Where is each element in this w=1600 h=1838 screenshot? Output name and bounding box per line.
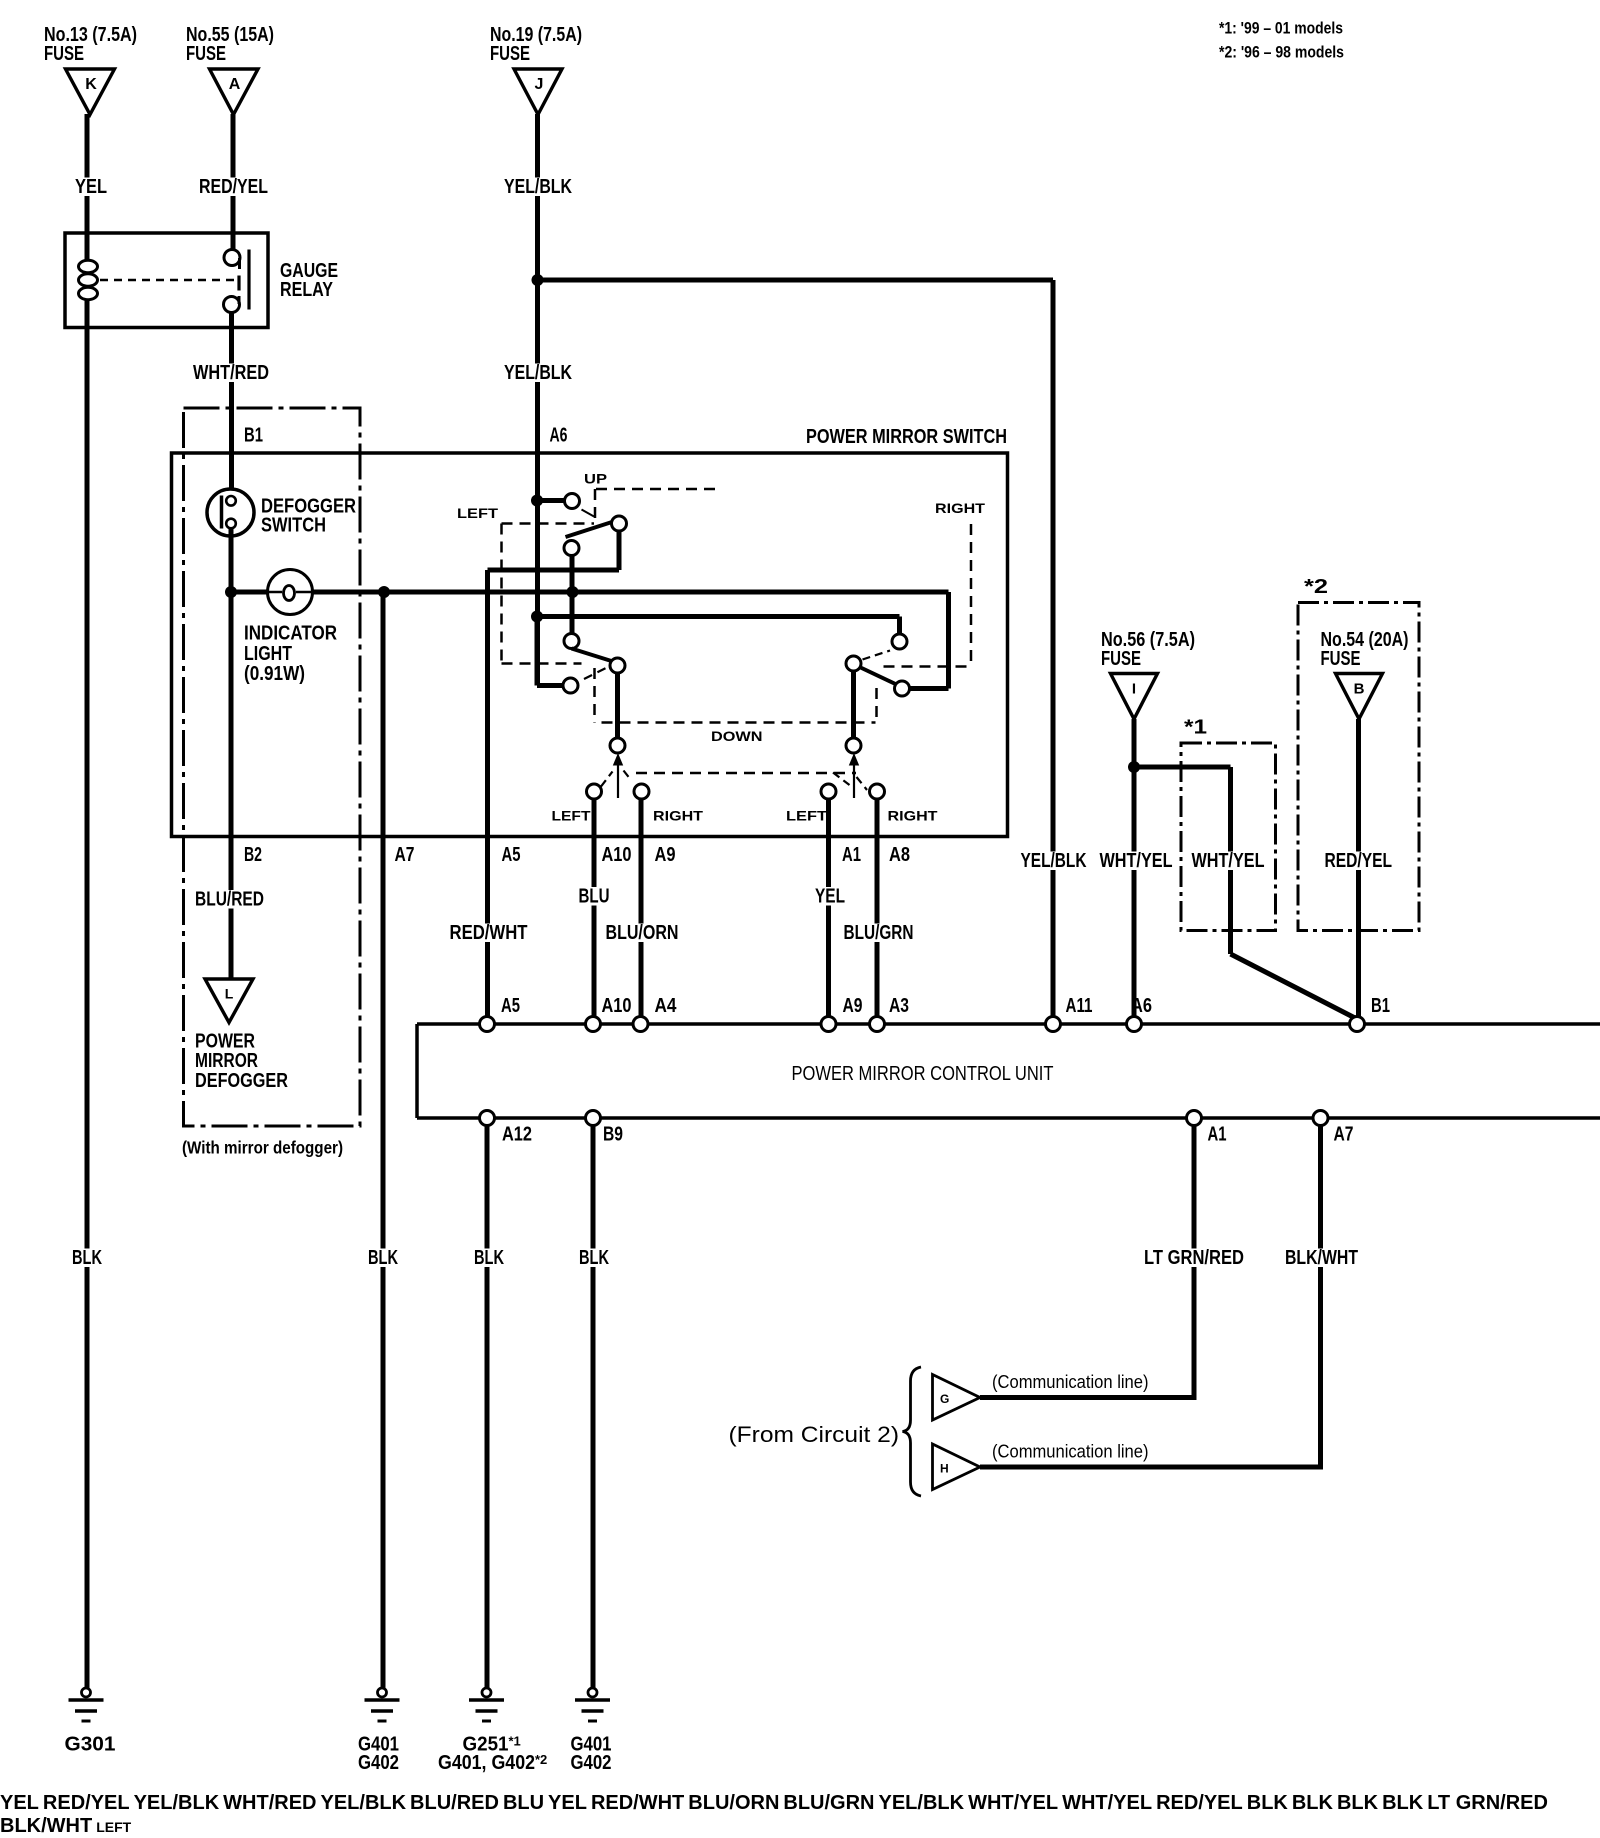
svg-text:G402: G402 — [358, 1752, 399, 1774]
label RED/YEL right — [1323, 850, 1395, 872]
svg-text:WHT/YEL: WHT/YEL — [1100, 850, 1173, 872]
svg-text:G: G — [940, 1392, 949, 1406]
wiper arm up-left switch — [566, 522, 614, 538]
wire A6 dot to contact — [537, 498, 564, 503]
label BLK/WHT — [1283, 1247, 1360, 1269]
wire A7 comm (BLK/WHT) — [1318, 1126, 1323, 1467]
relay contact pin bottom — [224, 296, 240, 313]
svg-text:A6: A6 — [550, 425, 568, 447]
svg-text:RIGHT: RIGHT — [888, 808, 939, 824]
svg-text:SWITCH: SWITCH — [261, 515, 326, 537]
svg-text:B1: B1 — [244, 425, 263, 447]
relay dashed actuation line — [100, 279, 236, 282]
connector triangle H — [933, 1444, 981, 1490]
label WHT/YEL — [968, 1796, 1058, 1813]
svg-text:YEL/BLK: YEL/BLK — [504, 362, 572, 384]
node dot WHT/YEL branch — [1128, 761, 1140, 773]
label YEL A1 wire — [548, 1796, 587, 1813]
label RED/YEL right — [1156, 1796, 1243, 1813]
label RED/YEL — [197, 176, 270, 198]
label YEL/BLK top — [134, 1796, 220, 1813]
fuse J — [514, 69, 562, 115]
svg-text:J: J — [535, 76, 544, 93]
wire A1 comm (LT GRN/RED) — [1192, 1126, 1197, 1398]
svg-text:RED/WHT: RED/WHT — [450, 922, 528, 944]
fuse I — [1111, 674, 1158, 720]
svg-text:*1: *1 — [1184, 717, 1207, 739]
wire comm line H — [980, 1465, 1323, 1470]
label YEL/BLK mid — [320, 1796, 406, 1813]
label BLU/ORN — [688, 1796, 779, 1813]
svg-text:DOWN: DOWN — [711, 728, 763, 744]
dashed guide stubs right arrow — [833, 773, 867, 791]
wire defogger switch to node B2 — [229, 528, 234, 978]
svg-text:*1: '99 – 01 models: *1: '99 – 01 models — [1219, 19, 1343, 38]
svg-text:LT GRN/RED: LT GRN/RED — [1144, 1247, 1244, 1269]
relay coil — [79, 260, 98, 299]
fuse A — [210, 69, 259, 115]
wire A10 down — [592, 799, 597, 1016]
svg-text:A10: A10 — [602, 995, 632, 1017]
wire YEL/BLK right vertical to A11 — [1051, 280, 1056, 1016]
defogger option dash-dot box — [184, 408, 361, 1126]
svg-text:BLK/WHT: BLK/WHT — [1285, 1247, 1358, 1269]
label WHT/RED — [223, 1796, 316, 1813]
connector circle A10 — [586, 1017, 601, 1032]
fuse B — [1336, 674, 1383, 720]
wiper arm down-left switch — [572, 649, 614, 662]
label BLK 4 — [1382, 1796, 1423, 1813]
svg-text:K: K — [85, 76, 97, 93]
wire A6 to contact F — [537, 617, 563, 686]
svg-text:A3: A3 — [889, 995, 909, 1017]
wiper circle left motor — [610, 738, 625, 753]
node dot A6 lower junction — [531, 611, 543, 623]
wire comm line G — [980, 1395, 1197, 1400]
arrow to left wiper — [613, 753, 623, 798]
label BLU/GRN — [783, 1796, 874, 1813]
defogger switch S1 — [207, 489, 254, 536]
svg-text:A6: A6 — [1131, 995, 1152, 1017]
svg-text:G402: G402 — [571, 1752, 612, 1774]
svg-text:FUSE: FUSE — [490, 43, 530, 65]
label DEFOGGER SWITCH — [261, 496, 356, 537]
svg-text:INDICATOR: INDICATOR — [244, 623, 337, 645]
svg-text:UP: UP — [584, 471, 607, 487]
relay U1 GAUGE RELAY box — [65, 233, 268, 328]
wire A7 down to ground (BLK) — [381, 592, 386, 1688]
contact circle left LEFT — [587, 784, 602, 799]
label BLK 1 — [70, 1247, 104, 1269]
svg-text:YEL/BLK: YEL/BLK — [1021, 850, 1087, 872]
svg-text:BLU/GRN: BLU/GRN — [844, 922, 914, 944]
wire E down to wiper left — [615, 673, 620, 738]
connector triangle G — [933, 1375, 981, 1421]
svg-text:(With mirror defogger): (With mirror defogger) — [182, 1138, 343, 1158]
fuse J label — [490, 24, 582, 65]
fuse I label — [1101, 629, 1195, 670]
svg-text:RELAY: RELAY — [280, 279, 334, 301]
pin labels below switch — [244, 844, 910, 866]
wire contact B down — [617, 531, 622, 570]
svg-text:(Communication line): (Communication line) — [992, 1442, 1149, 1462]
svg-text:YEL: YEL — [75, 176, 107, 198]
control unit box POWER MIRROR CONTROL UNIT — [417, 1024, 1600, 1118]
dashed pivot stub right switch — [863, 651, 891, 660]
ground G401b — [571, 1688, 612, 1774]
fuse B label — [1321, 629, 1409, 670]
connector circle A12 — [480, 1111, 495, 1126]
label BLK 2 — [366, 1247, 400, 1269]
label YEL/BLK mid — [502, 362, 574, 384]
contact circle B up-left — [612, 516, 627, 531]
option box *1 — [1181, 717, 1276, 931]
indicator light L1 — [268, 570, 313, 615]
contact circle D — [564, 634, 579, 649]
label BLU — [503, 1796, 544, 1813]
label BLK 1 — [1247, 1796, 1288, 1813]
fuse K — [66, 69, 115, 115]
svg-text:FUSE: FUSE — [1321, 648, 1361, 670]
label BLU/GRN — [842, 922, 916, 944]
contact circle left-up feed — [565, 494, 580, 509]
contact circle right LEFT — [821, 784, 836, 799]
wire A fuse to relay contact — [231, 114, 236, 250]
svg-text:BLU/ORN: BLU/ORN — [606, 922, 679, 944]
contact circle F — [563, 678, 578, 693]
svg-text:A1: A1 — [842, 844, 861, 866]
label BLU/RED — [193, 889, 266, 911]
svg-text:(0.91W): (0.91W) — [244, 663, 305, 685]
connector circle A5 — [480, 1017, 495, 1032]
wire A9toA4 down — [639, 799, 644, 1016]
bus1 indicator light wire y592 — [231, 592, 949, 689]
svg-text:YEL: YEL — [815, 886, 845, 908]
label BLU/RED — [410, 1796, 499, 1813]
pivot circle right switch — [846, 656, 861, 671]
label RED/WHT — [448, 922, 530, 944]
wire pivot down to wiper right — [851, 671, 856, 738]
svg-text:A12: A12 — [502, 1124, 532, 1146]
svg-text:BLK: BLK — [368, 1247, 398, 1269]
svg-text:A4: A4 — [655, 995, 678, 1017]
svg-text:B1: B1 — [1371, 995, 1390, 1017]
ground G251 — [438, 1688, 547, 1774]
dashed guide at E — [584, 667, 608, 679]
svg-text:A8: A8 — [889, 844, 910, 866]
unit pin labels bottom — [502, 1124, 1354, 1146]
connector circle B9 — [586, 1111, 601, 1126]
svg-text:FUSE: FUSE — [1101, 648, 1141, 670]
svg-text:A: A — [229, 76, 241, 93]
svg-text:BLK: BLK — [579, 1247, 609, 1269]
connector circle A3 — [870, 1017, 885, 1032]
svg-text:*2: *2 — [1304, 576, 1328, 598]
connector circle A9 — [821, 1017, 836, 1032]
label POWER MIRROR DEFOGGER — [195, 1031, 288, 1093]
wire A5 down to unit — [485, 570, 490, 1016]
svg-text:RED/YEL: RED/YEL — [199, 176, 268, 198]
dashed RIGHT guide — [884, 524, 972, 667]
svg-text:MIRROR: MIRROR — [195, 1050, 258, 1072]
svg-text:L: L — [225, 986, 234, 1002]
dashed guide vertical x594 — [593, 668, 596, 723]
svg-text:BLU/RED: BLU/RED — [195, 889, 264, 911]
svg-text:A5: A5 — [502, 844, 521, 866]
svg-text:LIGHT: LIGHT — [244, 643, 292, 665]
label YEL/BLK top — [502, 176, 574, 198]
svg-text:H: H — [940, 1462, 949, 1476]
svg-text:DEFOGGER: DEFOGGER — [195, 1070, 288, 1092]
label YEL/BLK right — [879, 1796, 965, 1813]
wire A relay bottom to defogger switch (WHT/RED) — [229, 312, 234, 496]
contact circle right-top — [892, 634, 907, 649]
svg-text:B: B — [1354, 681, 1365, 698]
power mirror switch box — [172, 453, 1008, 837]
svg-text:FUSE: FUSE — [44, 43, 84, 65]
wire J down (YEL/BLK) — [535, 114, 540, 686]
svg-text:FUSE: FUSE — [186, 43, 226, 65]
svg-text:A7: A7 — [1334, 1124, 1354, 1146]
power mirror defogger L — [205, 979, 253, 1023]
wire B9 to ground (BLK) — [591, 1126, 596, 1688]
contact circle right RIGHT — [870, 784, 885, 799]
svg-text:(Communication line): (Communication line) — [992, 1372, 1149, 1392]
svg-text:RIGHT: RIGHT — [935, 500, 986, 516]
node junction J y280 — [532, 274, 544, 286]
label BLK 2 — [1292, 1796, 1333, 1813]
svg-text:B2: B2 — [244, 844, 262, 866]
wire WHT/YEL branch to B1 — [1134, 767, 1355, 1018]
dashed DOWN guide box — [602, 688, 877, 773]
connector circle A11 — [1046, 1017, 1061, 1032]
connector circle A4 — [633, 1017, 648, 1032]
wire K relay to ground G301 (BLK) — [85, 299, 90, 1688]
wiper circle right motor — [846, 738, 861, 753]
svg-text:(From Circuit 2): (From Circuit 2) — [729, 1422, 900, 1447]
dashed guide stubs left arrow — [601, 771, 631, 787]
label INDICATOR LIGHT (0.91W) — [244, 623, 337, 686]
wire coil to box bottom — [85, 299, 90, 327]
label LT GRN/RED — [1427, 1796, 1548, 1813]
label WHT/YEL — [1098, 850, 1175, 872]
contact circle C — [564, 541, 579, 556]
svg-text:A9: A9 — [843, 995, 863, 1017]
label BLU — [577, 886, 612, 908]
svg-text:A9: A9 — [655, 844, 676, 866]
label YEL/BLK right — [1019, 850, 1089, 872]
svg-text:YEL/BLK: YEL/BLK — [504, 176, 572, 198]
svg-text:LEFT: LEFT — [552, 808, 591, 824]
svg-text:POWER MIRROR SWITCH: POWER MIRROR SWITCH — [806, 426, 1007, 448]
wire fuse I to A6 (WHT/YEL) — [1132, 719, 1137, 1016]
fuse K label — [44, 24, 137, 65]
label RED/WHT — [591, 1796, 684, 1813]
dashed LEFT guide box — [502, 524, 595, 664]
node dot A6 upper junction — [531, 495, 543, 507]
connector circle A6unit — [1127, 1017, 1142, 1032]
ground G401a — [358, 1688, 400, 1774]
svg-text:A5: A5 — [501, 995, 520, 1017]
dashed UP guide — [595, 489, 721, 523]
svg-text:A10: A10 — [602, 844, 632, 866]
wire A12 to ground (BLK) — [485, 1126, 490, 1688]
svg-text:WHT/RED: WHT/RED — [193, 362, 269, 384]
svg-text:BLK: BLK — [72, 1247, 102, 1269]
connector circle A7unit — [1313, 1111, 1328, 1126]
ground G301 — [65, 1688, 116, 1756]
label BLK 4 — [577, 1247, 611, 1269]
node dot B2 junction — [225, 586, 237, 598]
label WHT/YEL star1 — [1062, 1796, 1152, 1813]
relay contact pin top — [224, 250, 240, 270]
label BLK 3 — [1337, 1796, 1378, 1813]
contact circle E — [610, 658, 625, 673]
fuse A label — [186, 24, 274, 65]
svg-text:LEFT: LEFT — [786, 808, 828, 824]
option box *2 — [1298, 576, 1419, 931]
label BLU/ORN — [604, 922, 681, 944]
label WHT/RED — [191, 362, 271, 384]
node dot bus1 C junction — [567, 586, 579, 598]
wire fuse B to B1 (RED/YEL) — [1356, 719, 1361, 1016]
unit pin labels top — [501, 995, 1390, 1017]
label GAUGE RELAY — [280, 260, 338, 301]
svg-text:B9: B9 — [603, 1124, 623, 1146]
label YEL K wire — [73, 176, 109, 198]
svg-text:BLU: BLU — [579, 886, 610, 908]
contact stub arm — [582, 510, 595, 517]
arrow to right wiper — [849, 753, 859, 798]
label BLK 3 — [472, 1247, 506, 1269]
wire contact C to bus1 to contact D — [570, 556, 575, 634]
svg-text:RED/YEL: RED/YEL — [1325, 850, 1393, 872]
label RED/YEL — [43, 1796, 130, 1813]
contact circle right-bottom — [895, 681, 910, 696]
wire bus2 y616 — [537, 617, 900, 635]
brace — [903, 1367, 922, 1496]
wire bus A5 y570 — [488, 568, 620, 573]
svg-text:RIGHT: RIGHT — [653, 808, 704, 824]
connector circle B1unit — [1350, 1017, 1365, 1032]
svg-text:BLK: BLK — [474, 1247, 504, 1269]
wiper arm right switch — [860, 667, 897, 685]
svg-text:I: I — [1132, 681, 1136, 698]
svg-text:A1: A1 — [1208, 1124, 1227, 1146]
wire branch y280 to right — [538, 278, 1054, 283]
connector circle A1unit — [1187, 1111, 1202, 1126]
wire A8toA3 down — [875, 799, 880, 1016]
relay contact bar — [239, 250, 249, 310]
contact circle left RIGHT — [634, 784, 649, 799]
label YEL A1 wire — [813, 886, 847, 908]
svg-text:G401, G402*2: G401, G402*2 — [438, 1752, 547, 1774]
svg-text:LEFT: LEFT — [457, 505, 499, 521]
node dot A7 junction — [378, 586, 390, 598]
svg-text:*2: '96 – 98 models: *2: '96 – 98 models — [1219, 43, 1344, 62]
svg-text:G301: G301 — [65, 1734, 116, 1756]
svg-text:A7: A7 — [395, 844, 415, 866]
label LT GRN/RED — [1142, 1247, 1246, 1269]
wire K fuse to relay — [85, 114, 90, 260]
wire A1toA9 down — [826, 799, 831, 1016]
svg-text:POWER MIRROR CONTROL UNIT: POWER MIRROR CONTROL UNIT — [792, 1062, 1054, 1085]
svg-text:WHT/YEL: WHT/YEL — [1192, 850, 1265, 872]
label BLK/WHT — [0, 1819, 92, 1836]
svg-text:A11: A11 — [1066, 995, 1093, 1017]
label WHT/YEL star1 — [1190, 850, 1267, 872]
